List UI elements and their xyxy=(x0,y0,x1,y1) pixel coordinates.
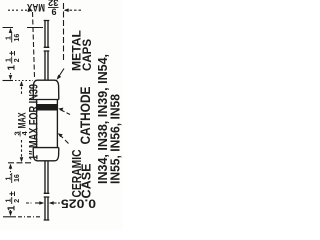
wire top lead upper segment xyxy=(44,21,50,48)
dimension 3/4 MAX line x=21.5 xyxy=(21,82,23,161)
svg-text:IN55, IN56, IN58: IN55, IN56, IN58 xyxy=(108,94,123,184)
svg-text:2: 2 xyxy=(14,199,21,203)
svg-text:CATHODE: CATHODE xyxy=(78,87,93,145)
body bottom extension line xyxy=(8,162,33,164)
dimension .025 arrow left xyxy=(26,202,33,204)
svg-text:1: 1 xyxy=(7,205,18,211)
ceramic body tube xyxy=(37,100,58,148)
cathode band xyxy=(37,104,58,111)
label bottom lead length 1 1/2 +- 1/16 (reads bottom to top) xyxy=(6,173,22,211)
label 3/4 MAX (reads bottom to top) xyxy=(12,112,29,136)
svg-text:CAPS: CAPS xyxy=(82,39,94,71)
svg-text:±: ± xyxy=(7,51,17,56)
lead tip extension line top xyxy=(3,27,44,29)
svg-text:CASE: CASE xyxy=(80,164,94,199)
svg-text:32: 32 xyxy=(48,0,59,8)
metal cap bottom xyxy=(33,147,59,149)
svg-text:±: ± xyxy=(7,191,17,196)
label 9/32 MAX (rotated 180) xyxy=(27,0,59,17)
dimension 9/32 MAX extension line left xyxy=(33,12,35,77)
label top lead length 1 1/2 +- 1/16 (reads bottom to top) xyxy=(6,33,22,71)
metal cap top xyxy=(33,80,59,99)
dimension bottom lead length line x=10.5 xyxy=(10,165,12,215)
callout arrow CERAMIC CASE xyxy=(60,135,69,144)
wire bottom lead upper segment xyxy=(44,161,50,194)
dimension 9/32 MAX arrow left xyxy=(8,9,31,11)
dimension .025 arrow right xyxy=(51,202,61,204)
wire top lead lower segment xyxy=(44,51,50,80)
svg-text:1: 1 xyxy=(7,65,18,71)
wire bottom lead lower segment xyxy=(44,197,50,220)
dimension 9/32 MAX arrow right xyxy=(65,9,81,11)
dimension 9/32 MAX extension line right xyxy=(63,3,65,62)
label .025" (rotated 180) xyxy=(61,197,96,211)
metal cap top bottom edge xyxy=(33,99,59,101)
callout arrow CATHODE xyxy=(60,110,70,115)
svg-text:MAX: MAX xyxy=(27,1,45,13)
svg-text:16: 16 xyxy=(14,174,21,182)
svg-text:1″ MAX FOR IN39: 1″ MAX FOR IN39 xyxy=(27,84,41,160)
dimension top lead length line x=10.5 xyxy=(10,29,12,79)
svg-text:2: 2 xyxy=(14,58,21,62)
lead tip extension line bottom xyxy=(3,216,16,218)
body top extension line (shared) xyxy=(3,80,14,82)
svg-text:16: 16 xyxy=(14,34,21,42)
callout arrow METAL CAPS xyxy=(59,69,64,77)
